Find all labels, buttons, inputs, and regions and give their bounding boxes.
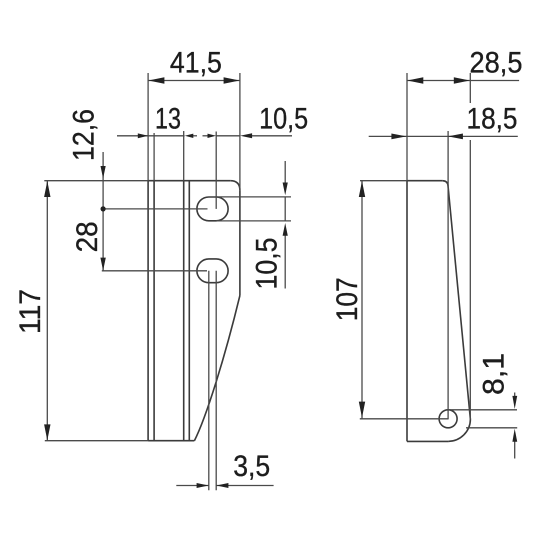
top edge [407,180,442,182]
part outline front view [148,181,240,441]
bottom edge [407,440,448,442]
svg-text:41,5: 41,5 [170,47,222,80]
3,5 left arrow (outside) [197,483,209,488]
svg-text:107: 107 [331,277,364,321]
107 top ext (top edge to the left) [360,180,407,182]
10,5 right arrow tail [252,135,293,137]
8,1 bottom arrow (outside, up) [512,429,517,442]
8,1 top arrow (outside, down) [512,396,517,409]
13 left ext (inner bend line up) [153,133,155,181]
ext line top edge to the left (117 / 12,6) [44,180,148,182]
28,5 right extension (masked behind 18,5 text) [469,73,471,103]
13 right arrow shaft [192,135,197,137]
svg-text:117: 117 [14,289,47,334]
18,5 right arrow (outside) [448,134,463,140]
28,5 left arrow [407,77,423,83]
28 dimension line [102,209,104,271]
top-right corner radius [230,181,240,191]
slot ext lines down to 3,5 [208,271,210,491]
slot1 center leader [102,208,208,210]
svg-text:18,5: 18,5 [467,103,518,136]
bottom edge [148,440,194,442]
117 dimension line [46,181,48,441]
slot hole 1 (obround) [197,197,228,221]
28 down arrow [100,258,105,271]
3,5 right arrow (outside) [216,483,228,488]
8,1 top arrow tail [514,393,516,397]
117 bottom arrow [44,424,50,440]
ext line bottom edge to the left (117) [45,440,148,442]
107 dimension line [361,181,363,419]
inner vertical edge / extension line at x=448 [447,131,449,419]
41,5 right arrow [224,77,240,83]
8,1 bottom arrow tail [514,441,516,459]
18,5 left arrow tail [369,135,407,137]
28,5 right arrow [454,77,470,83]
13 dimension line [148,135,184,137]
107 top arrow [359,181,365,197]
41,5 left extension [147,73,149,181]
slot hole 2 (obround) [197,259,228,283]
28,5 dimension line [407,80,519,82]
41,5 / 10,5 right extension [239,73,241,190]
inner left bend line [153,181,155,441]
svg-text:10,5: 10,5 [251,238,284,290]
10,5 right arrow (outside) [240,133,252,138]
28 start dot [101,206,106,211]
18,5 right arrow tail [448,135,518,137]
left edge [406,181,408,442]
right 10,5 dim line [284,197,286,221]
18,5 left arrow (outside) [391,134,406,140]
mid bend line B [188,181,190,441]
117 top arrow [44,181,50,197]
left edge [147,181,149,441]
hole circle [439,410,457,428]
slanted right edge with large bend [194,296,240,441]
107 bottom arrow [359,402,365,418]
13 arrow tail left [117,135,148,137]
10,5 left arrow (outside, small) [208,134,217,138]
3,5 right arrow tail [216,485,273,487]
bottom-right corner radius [448,419,470,441]
right 10,5 bottom arrow tail [284,235,286,289]
3,5 left arrow tail [176,485,209,487]
top edge [148,180,230,182]
13 left arrow (outside) [138,133,148,138]
svg-text:12,6: 12,6 [68,109,101,161]
8,1 bottom ext (circle bottom tangent) [466,427,517,429]
slot2 center leader [102,270,207,272]
svg-text:28: 28 [71,221,104,252]
10,5 left arrow shaft [203,135,209,137]
41,5 left arrow [148,77,164,83]
right edge [239,190,241,295]
right 10,5 top arrow tail [284,161,286,184]
right 10,5 top arrow (outside, down) [283,183,288,196]
part outline side view [407,181,470,442]
right 10,5 ext bottom (slot1 bottom tangent) [216,220,291,222]
107 bottom ext (to circle center) [360,418,448,420]
top-right corner [442,181,448,187]
18,5 dimension line [407,135,448,137]
slanted right edge [448,187,470,420]
svg-text:28,5: 28,5 [470,47,523,80]
mid bend line A [183,181,185,441]
right 10,5 bottom arrow (outside, up) [283,223,288,236]
8,1 top ext (circle top tangent) [448,409,517,411]
12,6 dimension line [102,152,104,209]
13 right ext [183,131,185,181]
41,5 dimension line [148,80,240,82]
svg-text:3,5: 3,5 [233,450,270,483]
12,6 down arrow (outside) [101,166,106,179]
svg-text:13: 13 [155,103,181,136]
svg-text:10,5: 10,5 [259,103,308,136]
28,5 / 18,5 left extension [406,73,408,181]
right 10,5 ext top (slot1 top tangent) [216,196,291,198]
svg-text:8,1: 8,1 [478,353,511,395]
10,5 dimension line [216,135,240,137]
13 right arrow (outside, small) [185,134,194,138]
slot1 vertical centerline [215,132,217,209]
